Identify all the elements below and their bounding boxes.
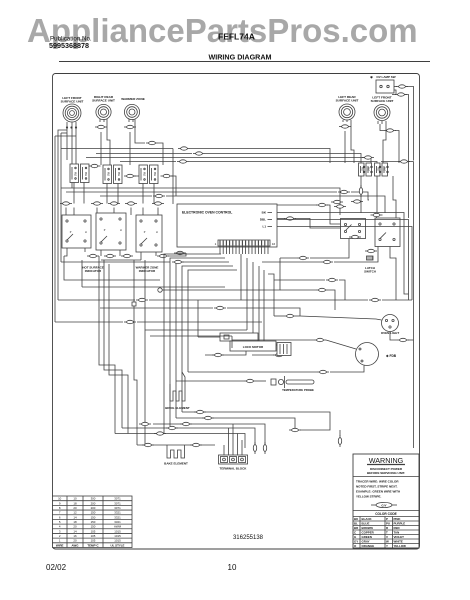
- warmer zone switch contacts S3: [139, 165, 158, 184]
- svg-text:3321: 3321: [114, 511, 121, 515]
- connector A1: [60, 202, 72, 205]
- connector lock motor: [212, 353, 224, 356]
- wire left-mid verticals: [99, 256, 115, 434]
- wire bottom bus y412: [182, 412, 330, 424]
- connector bottom 433: [154, 432, 166, 435]
- connector bottom 428: [166, 426, 178, 429]
- svg-text:OV LAMP SW: OV LAMP SW: [376, 75, 395, 79]
- svg-text:PU: PU: [386, 522, 390, 526]
- broil element: [165, 388, 190, 410]
- svg-text:AWG: AWG: [72, 543, 80, 547]
- left front surface switch contacts S1: [70, 164, 89, 183]
- svg-text:SURFACE UNIT: SURFACE UNIT: [371, 99, 394, 103]
- svg-text:150: 150: [91, 511, 96, 515]
- svg-text:12: 12: [73, 511, 77, 515]
- svg-text:✱: ✱: [370, 76, 374, 80]
- oven temperature sensor probe: [271, 376, 314, 392]
- svg-text:GRAY: GRAY: [362, 540, 370, 544]
- connector right out 1: [297, 256, 309, 259]
- svg-text:WIRE: WIRE: [56, 543, 64, 547]
- svg-text:YELLOW STRIPE.: YELLOW STRIPE.: [356, 495, 382, 499]
- svg-text:300: 300: [91, 497, 96, 501]
- svg-text:UL STYLE: UL STYLE: [111, 543, 125, 547]
- connector oven light 2: [397, 338, 409, 341]
- wire feeders into row-2 boxes: [65, 208, 67, 216]
- wire bottom bus y418: [176, 418, 295, 430]
- lock motor assembly: [220, 333, 276, 351]
- wire verticals into terminal block: [223, 445, 225, 455]
- connector right bottom: [289, 428, 301, 431]
- right front surface switch box B5: [375, 218, 400, 247]
- svg-text:BROIL ELEMENT: BROIL ELEMENT: [165, 406, 190, 410]
- terminal block TB: [219, 455, 248, 471]
- wire vertical x173 EOC left edge: [172, 149, 174, 205]
- connector EOC lower 1: [326, 278, 338, 281]
- connector bottom 418: [202, 416, 214, 419]
- svg-text:BLACK: BLACK: [362, 517, 373, 521]
- svg-text:SURFACE UNIT: SURFACE UNIT: [61, 100, 84, 104]
- wire left rear coil (right group) leads: [342, 120, 344, 122]
- svg-text:3071: 3071: [114, 497, 121, 501]
- connector C1: [87, 254, 99, 257]
- connector bottom 412: [194, 410, 206, 413]
- svg-text:BL: BL: [354, 522, 358, 526]
- svg-text:3071: 3071: [114, 506, 121, 510]
- svg-text:16: 16: [272, 242, 276, 246]
- motor cam switch hatched block: [277, 343, 291, 356]
- wire EOC DBL to right edge: [277, 220, 409, 301]
- svg-text:SURFACE UNIT: SURFACE UNIT: [336, 99, 359, 103]
- svg-text:3321: 3321: [114, 515, 121, 519]
- hot surface indicator switch box B1: [62, 215, 91, 248]
- wire bus upper 3: [86, 158, 371, 164]
- svg-text:TERMINAL BLOCK: TERMINAL BLOCK: [220, 467, 248, 471]
- svg-text:WARMER ZONE: WARMER ZONE: [121, 97, 145, 101]
- svg-text:20: 20: [73, 506, 77, 510]
- connector EOC lower 2: [316, 288, 328, 291]
- svg-text:LI: LI: [156, 231, 158, 234]
- connector B4 bottom: [349, 235, 361, 238]
- connector A3: [108, 202, 120, 205]
- wire motor leads: [326, 340, 356, 349]
- connector TB b: [263, 442, 266, 454]
- oven lamp switch SW1: [370, 75, 396, 93]
- svg-text:20: 20: [73, 525, 77, 529]
- connector bottom 424b: [139, 422, 151, 425]
- svg-text:DBL: DBL: [260, 218, 266, 222]
- connector bottom 445a: [142, 443, 154, 446]
- svg-text:L1: L1: [262, 225, 266, 229]
- connector C2: [104, 254, 116, 257]
- svg-text:✱ FDB: ✱ FDB: [386, 354, 397, 358]
- EOC pin labels BK DBL L1: [260, 211, 267, 229]
- junction square mid: [132, 302, 136, 306]
- svg-text:YELLOW: YELLOW: [394, 544, 407, 548]
- title underline: [59, 61, 430, 63]
- wire box outputs down: [64, 248, 67, 256]
- connector S2 right: [124, 174, 136, 177]
- junction circle mid: [158, 288, 162, 292]
- right rear surface switch contacts S2: [103, 165, 122, 184]
- wire warmer zone coil leads: [128, 119, 130, 122]
- svg-text:COLOR CODE: COLOR CODE: [375, 512, 397, 516]
- svg-text:T: T: [386, 531, 388, 535]
- connector B5 feed: [284, 217, 296, 220]
- wire EOC lower right runs: [274, 279, 325, 281]
- switch internal labels: [74, 166, 387, 176]
- right rear surface unit coil (left group): [92, 95, 115, 120]
- wire oven light feeds: [274, 315, 284, 317]
- wire gauge table: [53, 496, 133, 548]
- connector warmer zone H: [146, 141, 158, 144]
- warmer zone coil: [121, 97, 145, 120]
- wire mid bus y290: [162, 258, 280, 290]
- svg-text:Y: Y: [386, 544, 388, 548]
- svg-text:LI: LI: [120, 229, 122, 232]
- connector bottom 445b: [190, 443, 202, 446]
- svg-text:PINK: PINK: [394, 517, 402, 521]
- svg-text:200: 200: [91, 506, 96, 510]
- svg-text:3321: 3321: [114, 520, 121, 524]
- wire mid bus y300: [58, 299, 135, 301]
- svg-text:INDICATOR: INDICATOR: [139, 269, 156, 273]
- wire probe leads: [176, 380, 244, 382]
- svg-text:NOTED FIRST, STRIPE NEXT.: NOTED FIRST, STRIPE NEXT.: [356, 485, 398, 489]
- wire mid bus y262: [61, 261, 170, 263]
- wire mid bus y308: [100, 307, 213, 309]
- connector mid 308: [214, 306, 226, 309]
- connector bus4: [177, 160, 189, 163]
- wire mid bus y322: [55, 321, 123, 323]
- connector B5 top: [371, 213, 383, 216]
- svg-text:1015: 1015: [114, 539, 121, 543]
- connector C5: [174, 251, 186, 254]
- wire broil leads: [169, 384, 171, 388]
- wire right pairs to boxes: [360, 176, 362, 187]
- wire left feeders down left side: [58, 130, 67, 300]
- svg-text:WHITE: WHITE: [394, 540, 403, 544]
- wire lock motor leads: [210, 336, 220, 338]
- connector TB a: [253, 442, 256, 454]
- svg-text:LOCK MOTOR: LOCK MOTOR: [243, 345, 264, 349]
- connector A4: [125, 202, 137, 205]
- connector B4 top c: [351, 200, 363, 203]
- svg-text:ELECTRONIC OVEN CONTROL: ELECTRONIC OVEN CONTROL: [182, 211, 232, 215]
- svg-text:SW: SW: [117, 171, 121, 176]
- box internal pin labels: [70, 229, 159, 234]
- svg-text:SURFACE UNIT: SURFACE UNIT: [92, 99, 115, 103]
- wire bus upper 2: [96, 153, 192, 155]
- connector right front coil: [384, 129, 396, 132]
- connector bus y192: [338, 190, 350, 193]
- connector S1 right: [89, 164, 101, 167]
- connector right bottom 2: [338, 435, 341, 447]
- color code table: [375, 512, 397, 516]
- svg-text:VIOLET: VIOLET: [394, 535, 405, 539]
- svg-text:150: 150: [91, 525, 96, 529]
- svg-text:TRACER WIRE: WIRE COLOR: TRACER WIRE: WIRE COLOR: [356, 480, 399, 484]
- svg-text:5995368878: 5995368878: [49, 41, 89, 50]
- wire y260 h: [64, 256, 160, 280]
- connector B4 feed: [316, 203, 328, 206]
- svg-text:14: 14: [73, 529, 77, 533]
- wire EOC BK to right edge: [277, 213, 409, 295]
- connector mid 322: [124, 320, 136, 323]
- left rear surface unit coil (right group): [336, 95, 359, 120]
- connector B4 top a: [331, 200, 343, 203]
- left rear surface switch contacts S4: [359, 163, 373, 176]
- connector right out 2: [321, 260, 333, 263]
- wire bus upper 1: [61, 148, 173, 150]
- svg-text:SW: SW: [74, 171, 78, 176]
- svg-text:WARNING: WARNING: [369, 456, 404, 465]
- connector B4 top b: [334, 205, 346, 208]
- wire bottom bus y433: [115, 434, 245, 441]
- wire bus upper 4: [120, 161, 176, 163]
- oven light L1: [381, 315, 400, 336]
- svg-text:AWM: AWM: [114, 525, 122, 529]
- svg-text:V: V: [386, 535, 388, 539]
- svg-text:G/Y: G/Y: [381, 504, 386, 508]
- connector A5: [152, 202, 164, 205]
- wire bottom bus y445: [137, 444, 215, 446]
- wire switch outputs verticals: [73, 183, 75, 204]
- svg-text:10: 10: [228, 563, 237, 572]
- connector mid 262: [172, 260, 184, 263]
- svg-text:10: 10: [73, 497, 77, 501]
- wire bake feeds: [166, 445, 168, 448]
- svg-text:SW: SW: [107, 171, 111, 176]
- connector mid 300b: [369, 298, 381, 301]
- svg-text:EXAMPLE: GREEN WIRE WITH: EXAMPLE: GREEN WIRE WITH: [356, 490, 400, 494]
- svg-text:SW: SW: [84, 171, 88, 176]
- diagram border frame: [53, 74, 420, 550]
- connector bus lamp: [398, 160, 410, 163]
- wire bus y196: [100, 195, 152, 197]
- svg-text:SW: SW: [153, 171, 157, 176]
- svg-text:18: 18: [73, 501, 77, 505]
- indicator switch box B2: [96, 213, 126, 250]
- bake element: [164, 448, 188, 466]
- connector C4: [157, 254, 169, 257]
- label part number 316255138: [233, 535, 264, 541]
- connector lamp sw 1: [396, 85, 408, 88]
- svg-text:INDICATOR: INDICATOR: [85, 269, 102, 273]
- electronic oven control EOC: [177, 204, 277, 247]
- svg-text:BEFORE SERVICING UNIT.: BEFORE SERVICING UNIT.: [367, 471, 405, 475]
- connector left rear coil: [339, 125, 351, 128]
- svg-text:20: 20: [73, 539, 77, 543]
- wire bus y188: [61, 188, 340, 215]
- right front surface unit coil (right group): [371, 96, 394, 121]
- svg-text:BLUE: BLUE: [362, 522, 370, 526]
- connector S3 right: [161, 174, 173, 177]
- svg-text:GY: GY: [354, 540, 358, 544]
- svg-text:200: 200: [91, 501, 96, 505]
- wire bottom bus y424: [153, 424, 265, 440]
- svg-text:105: 105: [91, 539, 96, 543]
- svg-text:3071: 3071: [114, 501, 121, 505]
- warning box: [353, 454, 419, 548]
- svg-text:02/02: 02/02: [46, 563, 67, 572]
- svg-text:TEMPERATURE PROBE: TEMPERATURE PROBE: [282, 388, 314, 392]
- wire right front coil (right group) leads: [377, 121, 379, 124]
- svg-text:WIRING DIAGRAM: WIRING DIAGRAM: [208, 53, 271, 62]
- svg-text:SW: SW: [143, 171, 147, 176]
- svg-text:SWITCH: SWITCH: [364, 270, 376, 274]
- svg-text:105: 105: [91, 534, 96, 538]
- svg-text:150: 150: [91, 520, 96, 524]
- svg-text:GREEN: GREEN: [362, 535, 372, 539]
- wire EOC L1 to right edge: [277, 227, 412, 301]
- svg-text:TEMP°C: TEMP°C: [87, 543, 99, 547]
- wire fan to mid verticals: [240, 254, 242, 300]
- connector motor 2: [317, 370, 329, 373]
- right front surface switch contacts S5: [375, 163, 389, 176]
- svg-text:14: 14: [73, 515, 77, 519]
- wire right switch outputs: [310, 239, 349, 259]
- svg-text:FEFL74A: FEFL74A: [218, 32, 255, 42]
- wire bus y192: [66, 191, 337, 193]
- wire oven lamp switch leads: [394, 86, 397, 88]
- svg-text:BAKE ELEMENT: BAKE ELEMENT: [164, 462, 188, 466]
- svg-text:PURPLE: PURPLE: [394, 522, 406, 526]
- svg-text:ORANGE: ORANGE: [362, 544, 375, 548]
- wire fan to left vertical bundle: [164, 254, 221, 434]
- connector lamp sw 2: [395, 93, 407, 96]
- svg-text:TAN: TAN: [394, 531, 400, 535]
- connector right rear coil: [95, 125, 107, 128]
- svg-text:10: 10: [58, 497, 62, 501]
- connector A2: [91, 202, 103, 205]
- wire left front coil leads: [66, 122, 68, 160]
- svg-text:1015: 1015: [114, 529, 121, 533]
- svg-text:105: 105: [91, 529, 96, 533]
- wire bottom bus y428: [122, 428, 255, 440]
- connector bus y196: [153, 194, 165, 197]
- connector motor 1: [314, 338, 326, 341]
- connector C3: [121, 254, 133, 257]
- wire TB extra feeds: [228, 428, 230, 455]
- connector S4 out: [359, 185, 362, 197]
- door motor M1: [356, 343, 397, 366]
- svg-text:18: 18: [73, 520, 77, 524]
- warmer zone indicator switch box B3: [136, 215, 162, 252]
- svg-text:BROWN: BROWN: [362, 526, 373, 530]
- connector bus1: [178, 147, 190, 150]
- connector bus2: [193, 152, 205, 155]
- connector block small: [367, 256, 374, 260]
- wire y287 h: [82, 286, 225, 288]
- connector B5 bottom: [365, 249, 377, 252]
- svg-text:W: W: [386, 540, 389, 544]
- tracer wire example symbol G/Y: [371, 502, 397, 507]
- EOC terminal strip P1: [215, 240, 276, 246]
- wire mid y330/336: [145, 329, 247, 331]
- svg-text:LI: LI: [85, 231, 87, 234]
- connector bottom 424: [180, 422, 192, 425]
- connector oven light 1: [284, 314, 296, 317]
- svg-text:16: 16: [73, 534, 77, 538]
- svg-text:P: P: [386, 517, 388, 521]
- connector mid 300a: [136, 298, 148, 301]
- svg-text:COPPER: COPPER: [362, 531, 375, 535]
- connector warmer zone coil: [124, 125, 136, 128]
- wire right bottom: [300, 424, 330, 430]
- wire EOC terminal fan-out: [219, 246, 221, 254]
- watermark logo AppliancePartsPros.com: [27, 14, 418, 47]
- wire mid bus y300 right: [241, 299, 368, 301]
- connector lock motor 2: [273, 353, 285, 356]
- wire right rear coil leads: [99, 119, 101, 122]
- svg-text:316255138: 316255138: [233, 535, 264, 541]
- left front surface unit coil: [61, 96, 84, 128]
- svg-text:150: 150: [91, 515, 96, 519]
- left rear surface switch box B4: [341, 219, 366, 239]
- connector bus3: [362, 156, 374, 159]
- connector probe: [244, 379, 256, 382]
- svg-text:1015: 1015: [114, 534, 121, 538]
- svg-text:RED: RED: [394, 526, 400, 530]
